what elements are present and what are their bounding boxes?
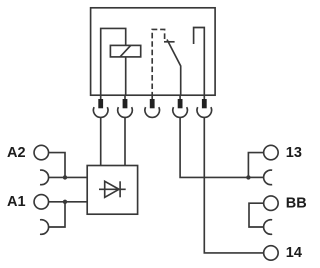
wire 13 to junction	[248, 153, 263, 178]
wire A1 socket to junction	[49, 202, 65, 227]
wire A2 socket to junction	[49, 176, 65, 178]
socket arc A1	[40, 220, 49, 235]
relay coil K1	[110, 45, 140, 57]
svg-text:BB: BB	[286, 196, 307, 212]
terminal 14 circle	[264, 246, 279, 261]
moving contact lever	[167, 40, 181, 96]
diode D1 triangle	[105, 181, 119, 197]
junction dot A2	[63, 175, 67, 179]
wire pin4 to terminal 13 junction	[180, 117, 248, 177]
diode cathode bar	[119, 181, 121, 197]
wire pin2 to rectifier	[124, 117, 126, 165]
relay coil wire loop	[101, 28, 126, 95]
junction dot A1	[63, 200, 67, 204]
wire pin5 to terminal 14	[204, 117, 263, 253]
svg-text:14: 14	[286, 245, 302, 261]
terminal A2 circle	[34, 145, 49, 160]
socket arc pin 2	[118, 107, 133, 117]
diode horizontal line	[99, 188, 126, 190]
plug pin 3	[150, 99, 155, 108]
wire A2 junction to rectifier	[65, 176, 87, 178]
svg-text:A1: A1	[7, 194, 26, 210]
socket arc BB	[264, 220, 273, 235]
plug pin 2	[123, 99, 128, 108]
socket arc 13	[264, 170, 273, 185]
socket arc pin 4	[173, 107, 188, 117]
relay housing box	[91, 8, 216, 95]
mechanical link (dashed)	[152, 29, 164, 95]
wire A2 to junction	[49, 153, 65, 178]
socket arc A2	[40, 170, 49, 185]
wire pin1 to rectifier	[100, 117, 102, 165]
wire BB bracket	[249, 203, 264, 227]
terminal A1 circle	[34, 195, 49, 210]
svg-text:A2: A2	[7, 145, 26, 161]
terminal 13 circle	[264, 145, 279, 160]
plug pin 4	[178, 99, 183, 108]
coil diagonal mark	[120, 45, 131, 57]
socket arc pin 5	[197, 107, 212, 117]
plug pin 1	[98, 99, 103, 108]
wire A1 to rectifier	[49, 201, 88, 203]
svg-text:13: 13	[286, 145, 302, 161]
fixed contact bar (NC)	[164, 41, 175, 43]
wire 13 socket to junction	[248, 176, 263, 178]
pin stub wires	[101, 95, 205, 99]
rectifier box	[87, 166, 137, 215]
socket arc pin 3	[145, 107, 160, 117]
plug pin 5	[202, 99, 207, 108]
terminal BB circle	[264, 196, 279, 211]
socket arc pin 1	[93, 107, 108, 117]
junction dot 13	[246, 175, 250, 179]
fixed contact hook (NO)	[194, 28, 205, 96]
